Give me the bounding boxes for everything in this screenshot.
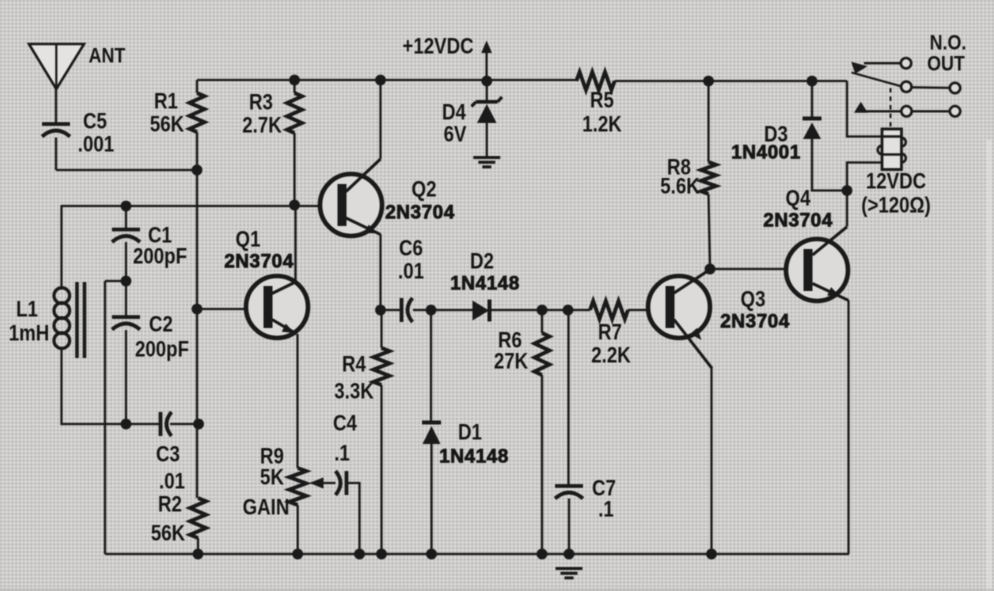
svg-text:.001: .001 [78,133,114,157]
svg-text:56K: 56K [151,522,186,546]
wire C6 to D2 node [413,309,473,311]
node C2/C3 [121,419,132,430]
transistor Q4 2N3704 [786,239,848,301]
wire R6 top lead [541,310,543,333]
svg-text:R2: R2 [158,493,182,517]
svg-text:.1: .1 [598,498,614,522]
resistor R4 [374,348,390,385]
potentiometer R9 [289,468,306,505]
svg-text:2N3704: 2N3704 [720,312,790,333]
wire C7 bottom lead [568,499,570,555]
wire R2 bottom lead [197,538,199,554]
resistor R8 [701,162,716,194]
wire Q1 collector vertical [294,205,296,282]
svg-text:L1: L1 [16,298,38,322]
transistor Q1 2N3704 [246,276,308,338]
wire bottom ground rail [105,553,849,555]
wire D3 top lead [811,81,813,117]
ground symbol at D4 [473,156,500,159]
diode D2 1N4148 [473,301,490,321]
node C6/D2/D1 [426,305,437,316]
wire C3 right lead [170,423,199,425]
wire armature to top contact [864,62,901,64]
svg-text:C3: C3 [156,443,180,467]
svg-text:1mH: 1mH [9,322,50,346]
svg-text:5.6K: 5.6K [660,175,700,199]
diode D1 1N4148 [422,421,441,425]
relay contact terminal bottom [901,106,911,116]
wire Q1 emitter vertical [296,334,298,468]
node R2/ground rail [193,549,204,560]
capacitor C6 [400,298,404,322]
svg-text:12VDC: 12VDC [866,170,926,194]
wire C2 top lead [125,281,127,317]
wire R7 to Q3 base [628,309,663,311]
+12VDC supply arrow [485,52,487,81]
svg-text:.1: .1 [334,442,350,466]
wire C7 branch from node [567,310,569,486]
svg-text:R1: R1 [154,90,178,114]
wire tank top rail [62,205,336,207]
svg-text:R3: R3 [249,91,273,115]
svg-text:5K: 5K [260,466,284,490]
wire C1 top lead [125,206,127,229]
relay OUT terminal lower [950,106,960,116]
node Q3 collector/R8/Q4 base [705,264,716,275]
node C3/R1 branch [193,419,204,430]
resistor R3 top lead [293,80,295,93]
svg-text:D4: D4 [442,101,466,125]
wire top bus right of R5 [615,80,847,82]
svg-text:1N4148: 1N4148 [439,447,509,468]
wire left loop down to L1 [60,205,62,288]
node R4/ground rail [376,549,387,560]
node R6-R7/C7 [563,305,574,316]
node C1/C2 tap [121,276,132,287]
svg-text:3.3K: 3.3K [334,380,374,404]
node D2/R6 [537,305,548,316]
wire R9 bottom lead [297,505,299,554]
resistor R2 [190,498,206,538]
wire R8 bottom lead [709,194,711,269]
zener diode D4 [476,100,498,104]
svg-text:56K: 56K [150,113,185,137]
node C5/R1 [192,165,203,176]
relay armature blade [852,73,902,87]
wire node to R7 [568,309,590,311]
svg-text:C2: C2 [149,313,173,337]
svg-text:.01: .01 [159,470,185,494]
wire D4 bottom lead [486,123,488,157]
svg-text:1N4001: 1N4001 [731,143,801,164]
svg-text:D1: D1 [458,421,482,445]
node Q2 emitter/C6/R4 [375,305,386,316]
relay coil 12VDC [882,129,902,170]
wire C3 node down to R2 [196,424,198,498]
svg-text:(>120Ω): (>120Ω) [861,194,931,218]
wire D4 top lead [486,81,488,100]
node D1/ground rail [426,549,437,560]
wire R1 top lead [196,80,198,93]
wire common to OUT [912,86,950,89]
svg-text:ANT: ANT [89,44,126,68]
wire top +12V bus [197,79,576,81]
svg-text:C5: C5 [83,110,107,134]
svg-text:1.2K: 1.2K [582,113,622,137]
resistor R1 [190,93,205,132]
svg-text:2N3704: 2N3704 [763,211,833,232]
resistor R6 [535,333,550,375]
relay OUT terminal upper [950,83,960,93]
wire Q2 emitter vertical [379,234,381,310]
wire D1 top lead [430,310,432,421]
node C1 top [121,201,132,212]
capacitor C5 [42,122,70,126]
svg-text:D2: D2 [470,250,494,274]
svg-text:OUT: OUT [927,52,965,76]
svg-text:200pF: 200pF [135,338,189,362]
wire bus corner down to relay coil top [847,81,882,137]
svg-text:.01: .01 [398,260,424,284]
resistor R5 [576,72,614,90]
wire Q1 base node down to C3 node [196,309,198,424]
wire R1 bottom lead [196,132,198,170]
svg-text:200pF: 200pF [133,245,187,269]
capacitor C7 [555,484,583,488]
svg-text:GAIN: GAIN [243,496,290,520]
svg-text:2.2K: 2.2K [591,344,631,368]
capacitor C4 [345,471,349,495]
node Q3 emitter/ground rail [706,549,717,560]
svg-text:Q4: Q4 [786,187,812,211]
wire Q3 collector node to Q4 base [710,268,803,270]
svg-text:Q2: Q2 [412,178,437,202]
wire L1 bottom to C3 rail [62,349,160,424]
wire bottom contact to OUT [912,110,950,112]
wire Q3 emitter vertical [710,368,712,554]
wiper arrow of R9 [310,477,324,488]
wire tap down to bottom rail [104,281,106,554]
svg-text:6V: 6V [444,123,467,147]
relay mechanical dashed link [890,88,892,128]
svg-text:Q3: Q3 [741,288,766,312]
inductor L1 [54,288,70,304]
svg-text:2N3704: 2N3704 [385,203,455,224]
node D3/top bus [807,76,818,87]
svg-text:+12VDC: +12VDC [402,35,473,59]
wire C5 to R1 node [56,169,197,171]
svg-text:R5: R5 [590,89,614,113]
relay NC contact arrow [854,102,868,113]
wire R9 wiper [311,482,336,484]
node +12V/top bus [481,76,492,87]
transistor Q2 2N3704 [320,174,382,236]
capacitor C3 [159,412,163,436]
resistor R7 [590,301,628,319]
wire C5 bottom lead [55,138,57,171]
node R3/Q2 base [289,200,300,211]
wire NC arrow to contact [861,110,901,112]
node R6/ground rail [537,549,548,560]
node D3/relay coil/Q4 collector [842,185,853,196]
wire R1 node down to Q1 base node [196,170,198,309]
node R3/top bus [289,75,300,86]
relay armature arrow [851,62,867,74]
wire R4 bottom lead [380,385,382,554]
svg-text:27K: 27K [494,350,529,374]
relay common terminal [901,82,911,92]
node C7/ground rail [564,549,575,560]
wire Q2 emitter node to C6 [381,309,401,311]
wire D1 bottom lead [430,444,432,554]
svg-text:1N4148: 1N4148 [450,274,520,295]
svg-text:C6: C6 [399,237,423,261]
antenna ANT [29,44,84,89]
node Q1 base [192,304,203,315]
wire R6 bottom lead [541,375,543,554]
wire D3 bottom lead [812,139,847,191]
wire relay coil bottom to Q4 collector [847,163,882,227]
node R8/top bus [703,76,714,87]
wire C1 bottom lead [125,242,127,281]
wire C1/C2 tap to left [105,280,126,282]
node Q2 collector/top bus [375,75,386,86]
wire Q1 base lead [197,308,261,310]
svg-text:2N3704: 2N3704 [224,252,294,273]
svg-text:R7: R7 [598,321,622,345]
node C4/ground rail [354,549,365,560]
capacitor C2 [112,315,140,319]
capacitor C1 [112,228,140,232]
relay contact terminal top [901,58,911,68]
svg-text:Q1: Q1 [236,228,261,252]
transistor Q3 2N3704 [648,276,710,338]
ground symbol at C7 [556,567,583,570]
wire R3 bottom lead [293,133,295,205]
wire R4 top lead [380,310,382,348]
wire Q4 emitter vertical [847,300,849,554]
wire R8 top lead [707,81,709,162]
resistor R3 [287,93,302,133]
wire C4 to ground rail [347,483,360,554]
svg-text:2.7K: 2.7K [242,114,282,138]
wire antenna lead [55,86,57,124]
svg-text:R4: R4 [342,353,366,377]
svg-text:C4: C4 [333,412,357,436]
node R9/ground rail [292,549,303,560]
diode D3 1N4001 [803,117,822,121]
wire C2 bottom lead [125,330,127,424]
wire Q2 collector vertical [379,80,381,159]
wire D2 to R6 node [490,309,569,311]
